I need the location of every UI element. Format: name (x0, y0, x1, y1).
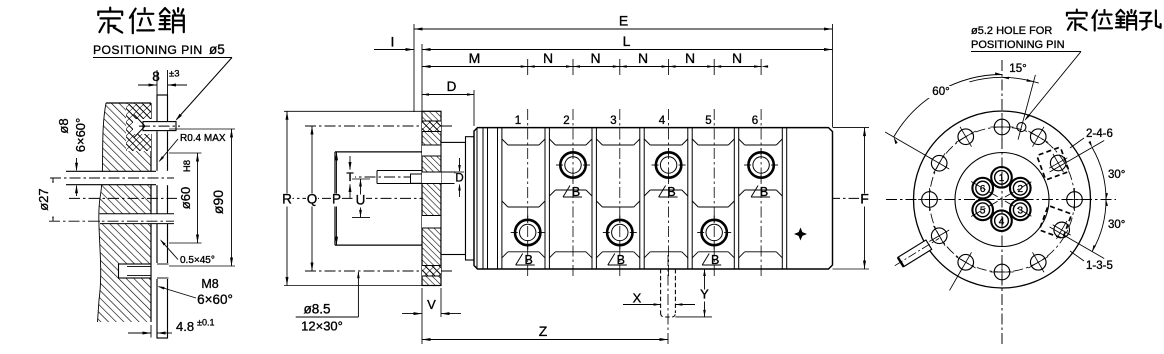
port circles with ticks (515, 220, 540, 245)
vertical centerline (1001, 60, 1003, 346)
svg-text:H8: H8 (182, 160, 193, 172)
svg-text:6: 6 (752, 115, 758, 127)
svg-text:30°: 30° (1108, 169, 1125, 181)
svg-text:5: 5 (705, 115, 711, 127)
svg-text:5: 5 (980, 205, 986, 216)
diamond marker (794, 228, 807, 241)
dim ø27 (52, 178, 54, 221)
outer circle (body end) (914, 111, 1091, 288)
section body hatch (flange hub, broken-out section) (98, 103, 152, 322)
svg-text:8: 8 (152, 69, 160, 84)
svg-text:ø27: ø27 (36, 188, 51, 210)
flange pin hole gap with pin (422, 172, 441, 184)
svg-text:1-3-5: 1-3-5 (1086, 260, 1113, 272)
svg-text:15°: 15° (1009, 63, 1026, 75)
hole gap: lower passage row (100, 214, 152, 224)
seal sleeve (441, 142, 466, 254)
pin centerline (139, 125, 180, 127)
dim X (stub dia) (623, 304, 661, 306)
svg-text:M8: M8 (201, 277, 218, 291)
body top edge (106, 102, 151, 104)
title 定位銷孔 (positioning pin hole) (1067, 10, 1087, 31)
center port cluster (971, 182, 1032, 217)
dashed box 1-3-5 (1039, 206, 1071, 239)
pin centerline (345, 176, 470, 178)
dim I (374, 49, 414, 51)
svg-text:Y: Y (700, 287, 709, 302)
lower passage centerline (49, 220, 174, 222)
svg-text:±3: ±3 (169, 69, 180, 80)
svg-text:POSITIONING PIN: POSITIONING PIN (93, 43, 203, 57)
pin hole in shaft (377, 170, 422, 172)
svg-text:X: X (633, 291, 642, 306)
svg-text:ø90: ø90 (210, 190, 226, 214)
svg-text:6: 6 (980, 184, 986, 195)
separator bands (497, 128, 499, 269)
main body outline (474, 128, 833, 269)
svg-text:4: 4 (999, 216, 1005, 227)
flange OD extension lines (284, 110, 422, 112)
segment surface lines with chamfers (508, 144, 539, 146)
cluster port 1 (991, 167, 1012, 188)
radial line through pin hole (1018, 75, 1035, 140)
flange passage hole lower (422, 216, 441, 229)
svg-text:I: I (391, 34, 395, 50)
svg-text:T: T (346, 170, 354, 184)
svg-text:±0.1: ±0.1 (197, 318, 214, 328)
svg-text:12×30°: 12×30° (301, 319, 343, 334)
hole gap: bolt hole row (100, 171, 152, 184)
svg-text:L: L (623, 33, 631, 49)
radial line at lower-left bolt hole (950, 271, 962, 291)
positioning pin (side view) (143, 122, 176, 131)
cluster port 2 (1010, 178, 1031, 199)
left collar rings of body (476, 128, 478, 269)
crosshatch zone near pin (pin boss) (126, 104, 151, 151)
svg-text:Q: Q (307, 192, 318, 207)
svg-text:4.8: 4.8 (176, 319, 194, 334)
inner circle (955, 153, 1049, 247)
dim ø90 (169, 128, 235, 130)
dim Y (stub length) (675, 316, 712, 318)
dim L (421, 44, 423, 111)
svg-text:N: N (543, 50, 553, 66)
svg-text:N: N (590, 50, 600, 66)
svg-text:ø5.2 HOLE FOR: ø5.2 HOLE FOR (971, 25, 1052, 37)
dim 60deg arc (885, 132, 933, 160)
flange plate (cover plate) (157, 95, 168, 338)
svg-text:2: 2 (563, 115, 569, 127)
svg-text:N: N (638, 50, 648, 66)
drain stub below port 4 (hidden lines) (660, 269, 662, 313)
svg-text:N: N (732, 50, 742, 66)
lower passage edge lines (100, 213, 174, 215)
bolt hole ø8 edge lines (66, 170, 156, 172)
svg-text:ø8.5: ø8.5 (303, 302, 330, 317)
bolt hole centerline (50, 177, 174, 179)
svg-text:B: B (711, 253, 719, 267)
svg-text:3: 3 (1018, 205, 1024, 216)
svg-text:6×60°: 6×60° (197, 292, 233, 307)
main axis centerline (middle view) (283, 197, 868, 199)
supply hole 1-3-5 (boxed) (1054, 222, 1070, 238)
svg-text:B: B (572, 185, 580, 199)
flange bolt hole top (bolt section) (422, 121, 441, 132)
pin countersink chevron (134, 115, 145, 127)
dim 15deg arc (969, 77, 1038, 83)
dim D (flange to body) (473, 90, 475, 126)
dim E (413, 24, 415, 112)
svg-text:2: 2 (1018, 184, 1024, 195)
svg-text:P: P (332, 192, 341, 207)
threaded hole M8 (119, 264, 152, 278)
port centerlines (527, 109, 529, 278)
dim Z (421, 317, 423, 344)
bolt holes 12x30 (10 shown) (994, 119, 1010, 135)
flange passage hole upper (422, 145, 441, 156)
flange bolt hole bottom (422, 266, 441, 277)
hole gap: M8 thread row (118, 264, 152, 279)
rotor flange (section hatch) (422, 111, 441, 285)
cluster port 5 (972, 200, 993, 221)
break line (wavy left edge) (98, 103, 107, 322)
pin hole ø5.2 at 15deg (1017, 123, 1026, 132)
svg-text:B: B (525, 253, 533, 267)
svg-text:M: M (469, 50, 481, 66)
body right edge (150, 103, 152, 322)
cluster port 6 (972, 178, 993, 199)
port boss inner lines (508, 206, 539, 208)
dim V (flange thickness) (421, 288, 423, 317)
pin through flange to tip (442, 173, 455, 183)
supply hole 2-4-6 (boxed) (1050, 155, 1066, 171)
handle stub lower-left (892, 234, 942, 271)
bolt circle centerline (930, 127, 1075, 272)
horizontal centerline (886, 199, 1116, 201)
svg-text:D: D (447, 79, 457, 94)
cylinder P (shaft step) (335, 151, 422, 153)
title 定位銷 (positioning pin) (98, 8, 122, 33)
svg-text:60°: 60° (932, 86, 949, 98)
dim U (352, 178, 370, 180)
svg-text:Z: Z (539, 323, 548, 339)
dim M and N chain (422, 66, 761, 68)
main axis centerline (left view) (69, 197, 177, 199)
svg-text:3: 3 (610, 115, 616, 127)
svg-text:E: E (619, 13, 628, 29)
svg-text:4: 4 (659, 115, 666, 127)
svg-text:6×60°: 6×60° (73, 118, 88, 152)
svg-text:ø5: ø5 (209, 42, 225, 57)
dashed box 2-4-6 (1037, 147, 1069, 180)
svg-text:D: D (455, 173, 463, 185)
svg-text:B: B (667, 185, 675, 199)
svg-text:ø60: ø60 (178, 187, 193, 209)
svg-text:V: V (427, 297, 436, 312)
cluster port 3 (1010, 200, 1031, 221)
bolt circle centerline bottom (305, 270, 452, 272)
svg-text:R: R (282, 192, 292, 207)
positioning pin protruding left (411, 174, 423, 183)
svg-text:B: B (617, 253, 625, 267)
cluster port 4 (991, 210, 1012, 231)
dim 8 ±3 (plate thickness) (156, 70, 158, 95)
svg-text:POSITIONING PIN: POSITIONING PIN (971, 39, 1065, 51)
dim P (336, 152, 338, 245)
B port labels with flags (516, 254, 523, 266)
dim D (pin dia at tip) (455, 171, 464, 173)
svg-text:0.5×45°: 0.5×45° (180, 255, 215, 266)
svg-text:ø8: ø8 (56, 118, 71, 133)
dim ø60 H8 (169, 152, 202, 154)
dim R (flange OD) (286, 111, 288, 285)
svg-text:F: F (860, 191, 869, 207)
dim 30deg arcs right side (1050, 141, 1105, 173)
bolt circle centerline top (305, 125, 452, 127)
svg-text:R0.4 MAX: R0.4 MAX (180, 133, 226, 144)
svg-text:N: N (685, 50, 695, 66)
svg-text:1: 1 (515, 115, 521, 127)
plate hole gaps (156, 121, 169, 131)
hole gap: positioning-pin hole through body (133, 119, 152, 134)
dim F (body OD) (833, 127, 870, 129)
svg-text:2-4-6: 2-4-6 (1086, 128, 1113, 140)
dim Q (bolt circle) (311, 126, 313, 271)
dim 4.8 ±0.1 (gap) (150, 325, 152, 338)
svg-text:30°: 30° (1108, 219, 1125, 231)
svg-text:1: 1 (999, 173, 1005, 184)
collar ring (466, 137, 475, 260)
svg-text:U: U (356, 193, 366, 208)
dim T (pin hole dia) (349, 156, 351, 170)
svg-text:B: B (760, 185, 768, 199)
